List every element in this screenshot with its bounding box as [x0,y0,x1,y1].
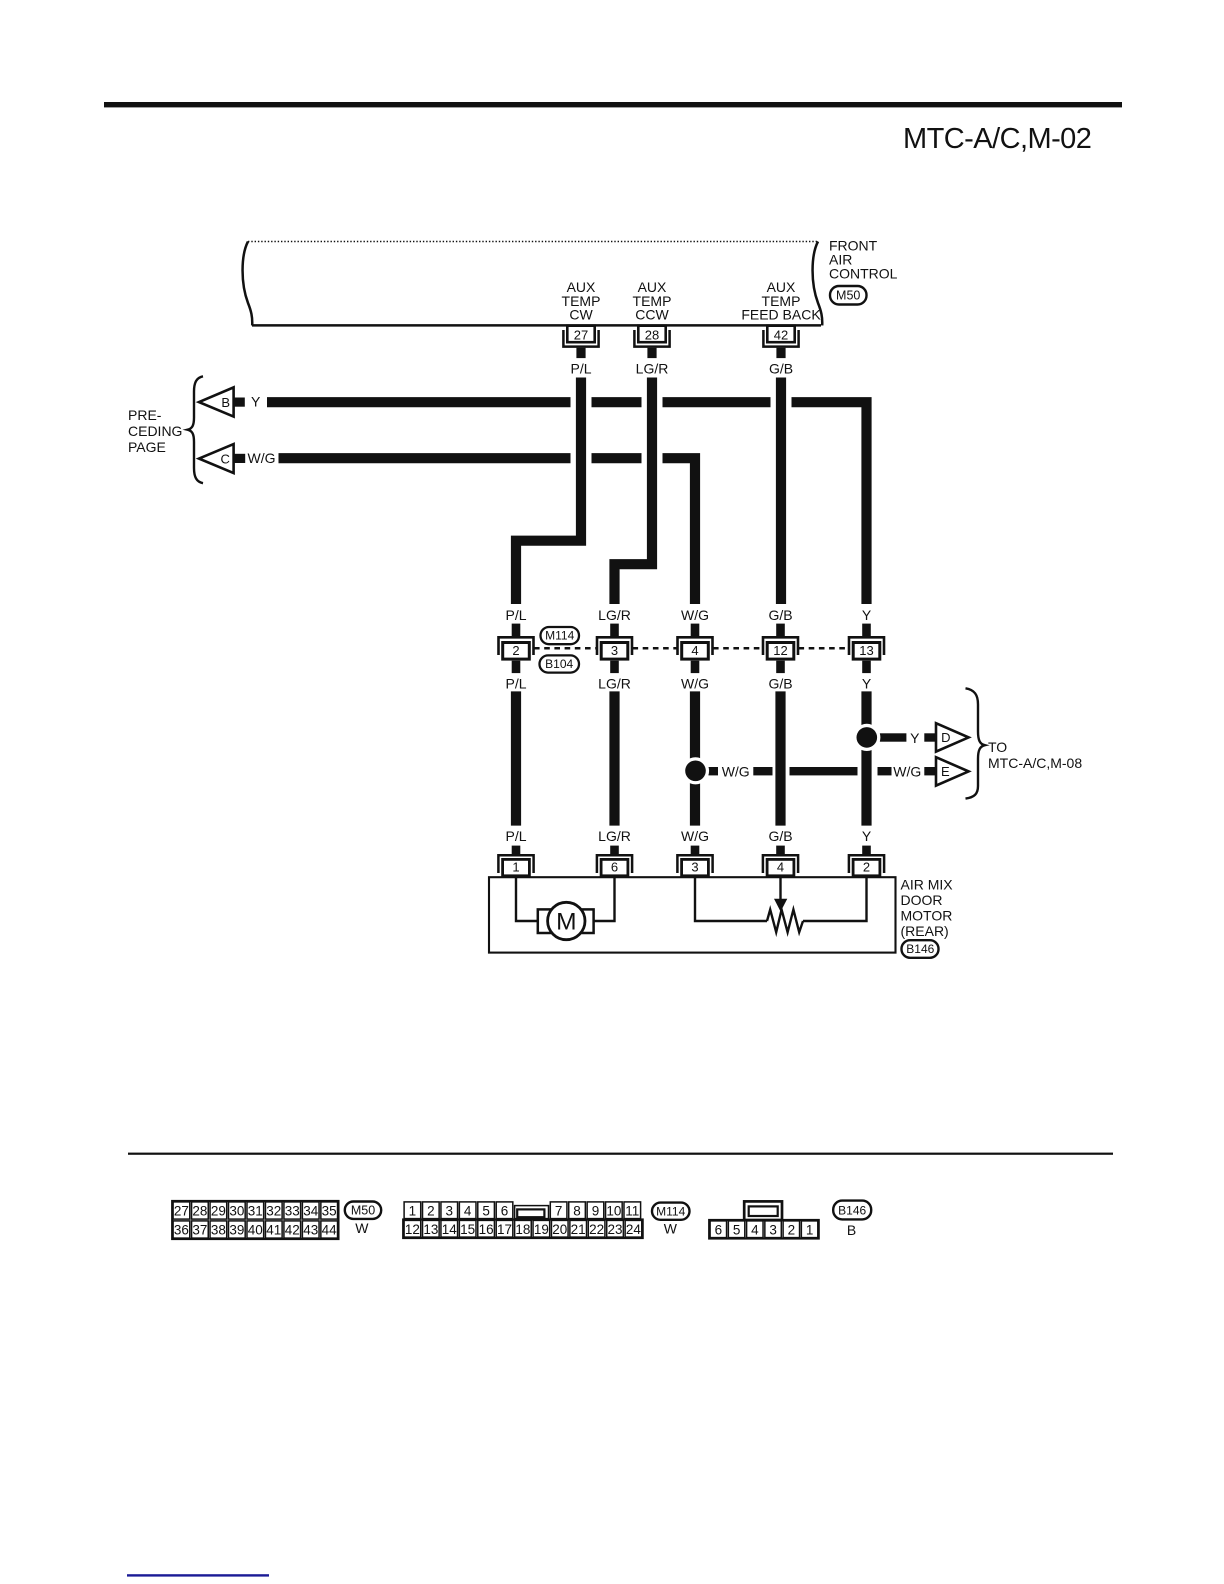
svg-text:9: 9 [592,1203,600,1218]
svg-text:1: 1 [409,1203,417,1218]
svg-text:27: 27 [174,1204,189,1219]
svg-text:P/L: P/L [570,360,591,376]
svg-text:CONTROL: CONTROL [829,266,898,282]
svg-text:W/G: W/G [722,763,750,779]
svg-text:4: 4 [751,1222,759,1237]
svg-text:15: 15 [460,1222,475,1237]
svg-text:B104: B104 [545,657,573,671]
svg-text:33: 33 [285,1204,300,1219]
svg-text:M114: M114 [545,629,574,643]
svg-text:MTC-A/C,M-02: MTC-A/C,M-02 [903,123,1091,155]
svg-text:42: 42 [774,327,788,342]
svg-text:P/L: P/L [505,828,526,844]
svg-text:CCW: CCW [635,307,669,323]
svg-text:C: C [221,451,230,466]
svg-text:30: 30 [229,1204,244,1219]
svg-text:8: 8 [573,1203,581,1218]
svg-text:35: 35 [322,1204,337,1219]
svg-text:B146: B146 [838,1203,866,1217]
svg-text:2: 2 [788,1222,796,1237]
svg-text:D: D [941,730,950,745]
svg-text:13: 13 [859,643,873,658]
svg-text:4: 4 [777,860,784,875]
svg-text:5: 5 [482,1203,490,1218]
svg-text:LG/R: LG/R [598,607,631,623]
svg-text:FEED BACK: FEED BACK [741,307,821,323]
svg-text:18: 18 [515,1222,530,1237]
svg-text:2: 2 [863,860,870,875]
svg-text:B: B [847,1222,856,1238]
svg-text:B: B [221,395,230,410]
svg-text:CW: CW [569,307,593,323]
svg-text:B146: B146 [906,942,934,956]
svg-text:G/B: G/B [769,360,793,376]
svg-text:4: 4 [464,1203,472,1218]
svg-text:6: 6 [501,1203,509,1218]
svg-text:34: 34 [303,1204,319,1219]
svg-text:G/B: G/B [768,607,792,623]
svg-text:36: 36 [174,1223,189,1238]
svg-text:(REAR): (REAR) [901,923,949,939]
svg-text:W: W [664,1220,678,1236]
svg-text:43: 43 [303,1223,318,1238]
svg-text:TO: TO [988,739,1007,755]
svg-text:M50: M50 [836,289,860,303]
svg-text:7: 7 [555,1203,563,1218]
svg-text:W/G: W/G [248,450,276,466]
svg-text:M: M [556,909,576,936]
svg-text:2: 2 [512,643,519,658]
svg-text:3: 3 [445,1203,453,1218]
svg-text:Y: Y [862,607,872,623]
svg-text:2: 2 [427,1203,435,1218]
svg-text:21: 21 [571,1222,586,1237]
svg-text:P/L: P/L [505,607,526,623]
svg-text:20: 20 [552,1222,567,1237]
svg-text:6: 6 [611,860,618,875]
svg-text:29: 29 [211,1204,226,1219]
svg-text:32: 32 [266,1204,281,1219]
svg-text:28: 28 [192,1204,207,1219]
svg-text:3: 3 [769,1222,777,1237]
svg-text:1: 1 [806,1222,814,1237]
svg-text:G/B: G/B [768,828,792,844]
svg-text:6: 6 [715,1222,723,1237]
svg-text:1: 1 [512,860,519,875]
svg-text:AIR MIX: AIR MIX [901,877,954,893]
svg-text:Y: Y [862,676,872,692]
svg-text:CEDING: CEDING [128,423,182,439]
svg-text:12: 12 [773,643,787,658]
svg-text:16: 16 [479,1222,494,1237]
svg-text:4: 4 [691,643,698,658]
svg-text:17: 17 [497,1222,512,1237]
svg-text:LG/R: LG/R [636,360,669,376]
svg-text:3: 3 [611,643,618,658]
svg-text:42: 42 [285,1223,300,1238]
svg-text:G/B: G/B [768,676,792,692]
svg-text:E: E [941,764,950,779]
svg-text:37: 37 [192,1223,207,1238]
svg-text:M114: M114 [656,1204,685,1218]
svg-text:PAGE: PAGE [128,439,166,455]
svg-text:13: 13 [423,1222,438,1237]
svg-text:28: 28 [645,327,659,342]
svg-text:M50: M50 [351,1203,375,1217]
svg-text:14: 14 [442,1222,458,1237]
svg-text:38: 38 [211,1223,226,1238]
svg-text:MTC-A/C,M-08: MTC-A/C,M-08 [988,755,1082,771]
svg-text:LG/R: LG/R [598,676,631,692]
svg-text:5: 5 [733,1222,741,1237]
svg-text:23: 23 [608,1222,623,1237]
svg-text:22: 22 [589,1222,604,1237]
svg-text:PRE-: PRE- [128,407,162,423]
svg-text:11: 11 [625,1203,639,1218]
svg-text:41: 41 [266,1223,281,1238]
svg-text:Y: Y [251,394,261,410]
svg-text:W/G: W/G [681,607,709,623]
svg-text:44: 44 [322,1223,338,1238]
svg-text:W: W [355,1220,369,1236]
svg-text:3: 3 [691,860,698,875]
svg-text:19: 19 [534,1222,549,1237]
svg-text:10: 10 [606,1203,621,1218]
svg-text:40: 40 [248,1223,263,1238]
svg-text:LG/R: LG/R [598,828,631,844]
svg-text:P/L: P/L [505,676,526,692]
svg-text:27: 27 [574,327,588,342]
svg-text:24: 24 [626,1222,642,1237]
svg-text:DOOR: DOOR [901,892,943,908]
svg-text:W/G: W/G [681,676,709,692]
svg-text:39: 39 [229,1223,244,1238]
svg-text:31: 31 [248,1204,263,1219]
svg-text:W/G: W/G [681,828,709,844]
svg-text:12: 12 [405,1222,420,1237]
svg-text:Y: Y [862,828,872,844]
svg-text:Y: Y [910,730,920,746]
svg-text:W/G: W/G [893,763,921,779]
svg-text:MOTOR: MOTOR [901,908,953,924]
